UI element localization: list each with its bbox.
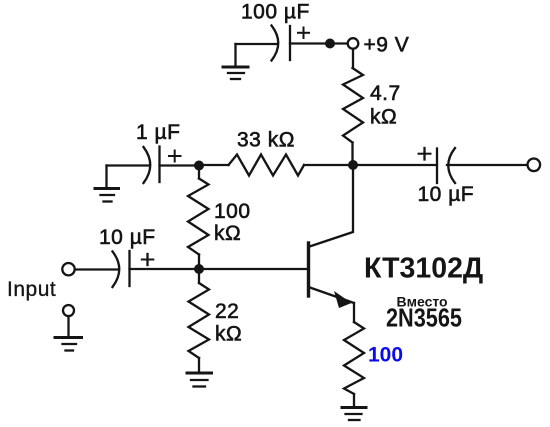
resistor R 100k	[188, 179, 209, 255]
collector lead	[310, 165, 354, 247]
junction collector node (dot)	[348, 160, 358, 170]
ground (for C 1uF)	[95, 166, 119, 202]
svg-text:100 µF: 100 µF	[241, 1, 310, 24]
svg-text:4.7: 4.7	[370, 82, 401, 105]
svg-text:+9 V: +9 V	[364, 34, 410, 57]
wire (emitter to R 100)	[353, 303, 355, 322]
terminal +9V (open circle)	[348, 38, 359, 49]
wire (ground to C 1uF)	[107, 164, 150, 166]
wire (input terminal to C 10uF)	[75, 268, 117, 270]
base bar	[307, 243, 310, 296]
plus sign of output 10uF cap	[419, 148, 431, 160]
wire (C 1uF to node B1)	[160, 164, 200, 166]
transistor Q1 KT3102D	[309, 165, 355, 308]
wire (R 4.7k to collector node)	[351, 143, 353, 166]
ground (top-left, for C 100uF)	[223, 44, 248, 79]
wire (R 100 to ground)	[353, 394, 355, 406]
svg-text:10 µF: 10 µF	[99, 226, 156, 249]
wire (R 100k to base node)	[198, 255, 200, 270]
plus sign of 100uF cap	[298, 28, 309, 39]
svg-text:22: 22	[215, 300, 239, 323]
svg-text:100: 100	[368, 344, 403, 367]
svg-text:2N3565: 2N3565	[386, 304, 462, 333]
svg-text:33 kΩ: 33 kΩ	[237, 129, 295, 152]
plus sign of input 10uF cap	[142, 254, 154, 265]
resistor R 22k	[189, 283, 210, 358]
plus sign of 1uF cap	[169, 151, 181, 162]
capacitor C 1uF	[144, 147, 160, 184]
wire (terminal to input ground)	[67, 317, 69, 337]
wire (R 100k top stub)	[198, 166, 200, 179]
resistor R 4.7k	[343, 68, 363, 143]
junction base node (dot)	[194, 264, 204, 274]
wire (node B1 to R 33k)	[199, 164, 229, 166]
svg-text:10 µF: 10 µF	[418, 183, 475, 206]
ground (input jack ground)	[55, 338, 82, 351]
wire (ground to C1)	[236, 43, 278, 45]
capacitor C 10uF (input)	[113, 251, 130, 287]
svg-text:kΩ: kΩ	[214, 222, 241, 245]
wire (base node to R 22k)	[198, 269, 200, 283]
junction node B1 (dot)	[194, 161, 204, 171]
emitter arrowhead	[334, 291, 352, 308]
wire (C1 to +9V terminal)	[290, 42, 347, 44]
svg-text:КТ3102Д: КТ3102Д	[364, 253, 483, 285]
wire (C out to output terminal)	[447, 164, 528, 166]
junction dot (supply rail)	[325, 39, 335, 49]
resistor R 33k	[229, 155, 305, 176]
wire (terminal to R 4.7k)	[352, 49, 354, 68]
ground (below R 100)	[342, 408, 366, 421]
emitter lead	[309, 287, 355, 303]
ground (below R 22k)	[187, 373, 212, 387]
wire (R 22k to ground)	[198, 358, 200, 371]
svg-text:kΩ: kΩ	[215, 323, 242, 346]
svg-text:Input: Input	[7, 278, 56, 301]
wire (C 10uF to base node and transistor base)	[130, 268, 309, 270]
wire (R 33k to collector node, continues to output cap)	[304, 164, 437, 166]
resistor R 100 (emitter)	[344, 322, 364, 394]
svg-text:1 µF: 1 µF	[136, 121, 180, 144]
svg-text:kΩ: kΩ	[370, 106, 397, 129]
terminal Input (open circle)	[62, 263, 74, 275]
capacitor C 100uF	[272, 26, 291, 61]
capacitor C 10uF (output)	[437, 148, 455, 183]
terminal output (open circle)	[528, 159, 541, 172]
terminal input ground (open circle)	[63, 305, 74, 316]
svg-text:100: 100	[214, 200, 251, 223]
